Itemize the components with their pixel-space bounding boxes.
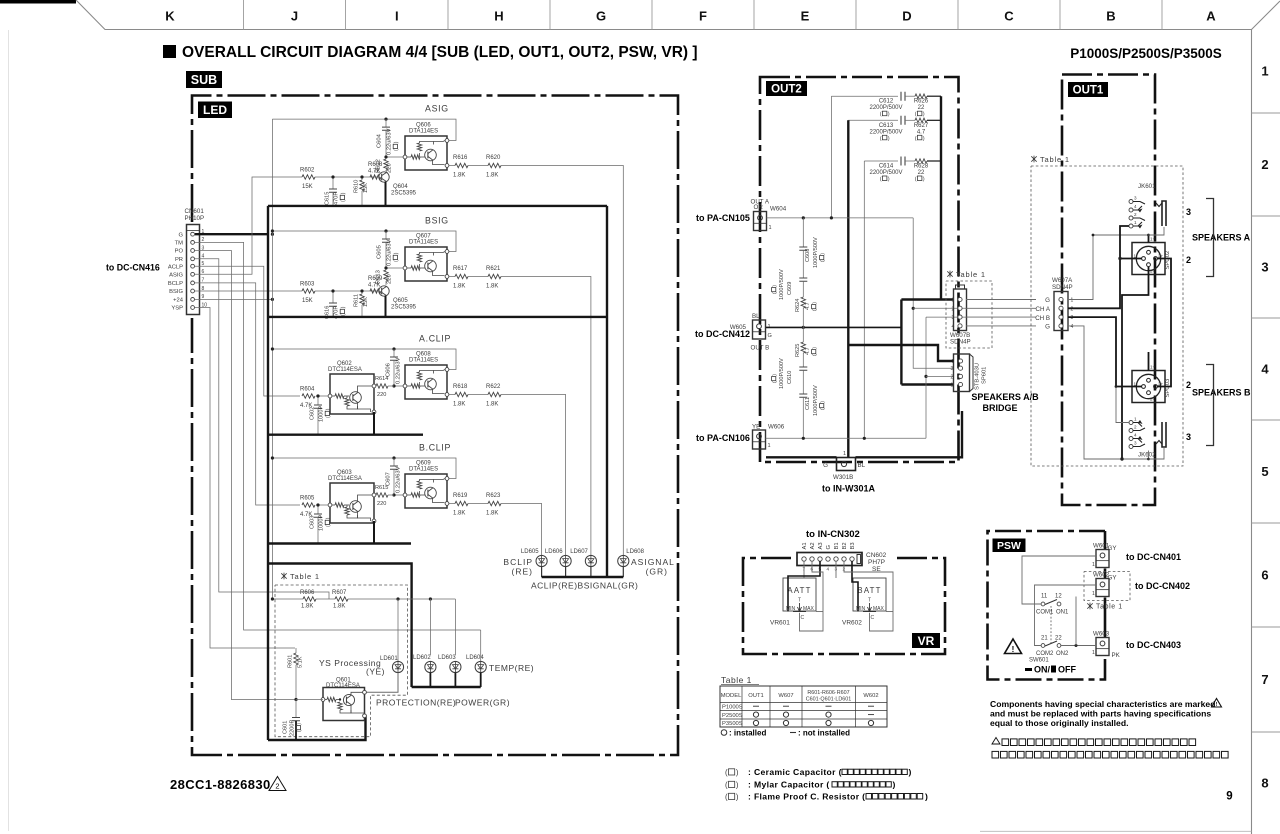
node SPEAKERS A labels <box>1186 199 1251 277</box>
svg-text:PH7P: PH7P <box>868 559 885 566</box>
resistor R611 15K (to bus) <box>361 291 363 294</box>
svg-text:470P: 470P <box>334 192 340 205</box>
wire: BSIG output with R617,R621 <box>449 276 455 278</box>
svg-text:3: 3 <box>951 366 954 372</box>
capacitor C606 0.22u/63V <box>393 349 395 357</box>
svg-text:4.7K: 4.7K <box>368 169 380 175</box>
svg-text:): ) <box>394 141 400 143</box>
svg-text:OUT1: OUT1 <box>748 693 763 699</box>
svg-text:CN601: CN601 <box>185 208 205 215</box>
page frame: top column band <box>0 0 1280 30</box>
svg-text:3: 3 <box>1261 260 1268 275</box>
svg-text:Q605: Q605 <box>393 298 408 304</box>
svg-text:C: C <box>871 615 875 621</box>
svg-text:15K: 15K <box>302 298 313 304</box>
wires: W607B to OUT1 W607A <box>966 299 1036 301</box>
svg-text:G: G <box>768 333 772 339</box>
svg-text:1+: 1+ <box>1150 365 1156 370</box>
svg-text:1.8K: 1.8K <box>453 511 465 517</box>
svg-text:R623: R623 <box>486 493 501 499</box>
wire: RC common (bold) to W607B pin1 <box>940 96 942 299</box>
svg-text:B.CLIP: B.CLIP <box>419 443 451 453</box>
wire: CN601 pin6 ASIG to ASIG input <box>195 177 302 274</box>
svg-text:3: 3 <box>1134 195 1137 200</box>
svg-text:(: ( <box>915 136 917 142</box>
svg-text:R611: R611 <box>354 294 360 307</box>
svg-text:3: 3 <box>952 315 955 321</box>
Zobel chain C608,C609,R624,R625,C610,C611 <box>772 218 826 438</box>
svg-text:2: 2 <box>1134 212 1137 217</box>
svg-text:W604: W604 <box>770 206 787 213</box>
title block <box>163 44 1222 61</box>
svg-text:CH A: CH A <box>1036 306 1051 313</box>
wire: G bold riser to W607B pin1 and SP601 pin1 <box>900 300 902 385</box>
node ON/OFF legend <box>1025 665 1076 675</box>
capacitor C612 2200P/500V + resistor R626 <box>831 92 941 118</box>
wire: ASIG DTA base wire <box>386 156 403 158</box>
svg-text:LD601: LD601 <box>380 656 398 662</box>
svg-text:to DC-CN403: to DC-CN403 <box>1126 640 1181 650</box>
svg-text:(: ( <box>880 177 882 183</box>
wire: OUT1 CH B net (bold) <box>1068 317 1142 386</box>
svg-text:3: 3 <box>1134 440 1137 445</box>
svg-text:ASIGNAL: ASIGNAL <box>631 557 675 567</box>
svg-text:F: F <box>699 9 707 24</box>
svg-text:22: 22 <box>1055 636 1062 642</box>
svg-text:SPEAKERS A: SPEAKERS A <box>1192 233 1251 243</box>
svg-text:R627: R627 <box>914 123 929 129</box>
PSW section border <box>988 531 1106 680</box>
svg-text:D: D <box>902 9 911 24</box>
wire: A.CLIP emitter bus (bold) <box>268 434 423 436</box>
svg-text:P1000S: P1000S <box>722 704 743 710</box>
svg-text:3: 3 <box>1071 315 1074 321</box>
wire: CN601 pin7 BCLP to B.CLIP input <box>195 283 300 505</box>
wire: ASIG +24 rail <box>272 119 456 140</box>
svg-text:2200P/500V: 2200P/500V <box>869 129 902 135</box>
wire: OUT A to W607B pin2 / SP601 pin3 <box>913 218 954 368</box>
wire: B.CLIP +24 rail <box>272 458 456 479</box>
svg-text:1+: 1+ <box>1150 237 1156 242</box>
wire: +24 rail bus vertical <box>271 119 273 600</box>
dashed box Table1 LED region <box>275 585 408 737</box>
svg-text:SDN4P: SDN4P <box>950 339 971 346</box>
svg-text:4.7: 4.7 <box>805 347 811 355</box>
LED LD602 <box>413 655 436 687</box>
svg-text:1000P/500V: 1000P/500V <box>779 269 785 300</box>
svg-text:BSIG: BSIG <box>425 216 449 226</box>
svg-text:OFF: OFF <box>1058 665 1076 675</box>
wire: A.CLIP input <box>316 395 328 397</box>
switch SW601 <box>1029 594 1069 664</box>
svg-text:C602: C602 <box>310 407 316 420</box>
note: special components (japanese) <box>992 738 1228 759</box>
svg-text:220: 220 <box>377 501 386 507</box>
resistor R613 220 <box>384 270 388 281</box>
svg-text:R619: R619 <box>453 493 468 499</box>
svg-text:1.8K: 1.8K <box>333 604 345 610</box>
svg-text:CH B: CH B <box>1035 315 1050 322</box>
svg-text:BATT: BATT <box>857 586 881 595</box>
svg-text:W607A: W607A <box>1052 277 1073 284</box>
wire: CN601 pin8 BSIG to BSIG input <box>195 290 302 292</box>
wire: W605 ground line (bold) <box>766 326 901 328</box>
svg-text:to DC-CN412: to DC-CN412 <box>695 329 750 339</box>
svg-text:R618: R618 <box>453 384 468 390</box>
svg-text:C609: C609 <box>787 282 793 295</box>
svg-text:to DC-CN401: to DC-CN401 <box>1126 552 1181 562</box>
SUB label <box>186 71 222 88</box>
wire: OUT1 G net A <box>1068 235 1149 300</box>
VR section border <box>743 558 945 654</box>
wire: LED cathode bus (bold) <box>542 576 624 578</box>
svg-text:SW601: SW601 <box>1029 658 1049 664</box>
svg-text:22: 22 <box>918 170 925 176</box>
svg-text:AATT: AATT <box>787 586 811 595</box>
svg-text:1.8K: 1.8K <box>486 511 498 517</box>
wire: OUT A line <box>767 217 914 219</box>
svg-text:15K: 15K <box>363 297 369 307</box>
svg-text:): ) <box>736 768 739 777</box>
svg-text:3: 3 <box>1186 207 1191 217</box>
svg-text:DTA114ES: DTA114ES <box>409 358 438 364</box>
svg-text:1: 1 <box>1092 562 1095 568</box>
wire: OUT B line <box>766 437 927 439</box>
svg-text:ASIG: ASIG <box>425 104 449 114</box>
svg-text:PROTECTION(RE): PROTECTION(RE) <box>376 698 456 708</box>
svg-text:2: 2 <box>1186 380 1191 390</box>
svg-text:SPEAKERS A/B: SPEAKERS A/B <box>971 392 1039 402</box>
wire: ground bus vertical (bold) <box>267 206 269 740</box>
svg-text:5.1K: 5.1K <box>298 656 304 668</box>
svg-text:G: G <box>823 462 828 469</box>
svg-text:LD608: LD608 <box>626 549 644 555</box>
svg-text:I: I <box>395 9 399 24</box>
svg-text:R625: R625 <box>795 344 801 357</box>
OUT1 section border <box>1062 75 1155 506</box>
svg-text:0.22u/63V: 0.22u/63V <box>387 128 393 155</box>
wire: A.CLIP +24 rail <box>272 349 456 370</box>
wire: CN601 pin3 PO drop <box>195 251 296 700</box>
svg-text:LD607: LD607 <box>570 549 588 555</box>
wire: CN601 pin1 G to ground bus (bold) <box>195 233 268 235</box>
svg-text:15K: 15K <box>363 183 369 193</box>
svg-text:R604: R604 <box>300 387 315 393</box>
svg-text:2: 2 <box>275 782 279 791</box>
svg-text:): ) <box>893 780 896 790</box>
svg-text:A2: A2 <box>810 542 816 549</box>
resistor R609 4.7K <box>370 289 381 293</box>
svg-text:): ) <box>394 252 400 254</box>
svg-text:W301B: W301B <box>833 474 853 481</box>
wire: BSIG input <box>315 290 379 292</box>
wire: B.CLIP output <box>449 503 455 505</box>
resistor R614 220 <box>374 385 376 387</box>
svg-text:A: A <box>1206 9 1216 24</box>
svg-text:ACLP: ACLP <box>168 264 183 270</box>
svg-text:PO: PO <box>175 249 184 255</box>
PSW label <box>993 539 1026 553</box>
svg-text:8: 8 <box>1261 776 1268 791</box>
resistor R604 4.7K <box>302 394 315 398</box>
wire: OUT B to W607B pin3 / SP601 pin2 <box>925 317 927 438</box>
wires VR601 <box>803 561 805 578</box>
svg-text:Table 1: Table 1 <box>721 675 752 685</box>
resistor R606 1.8K <box>271 590 335 610</box>
wire: BSIG DTA base wire <box>386 267 403 269</box>
jack JK601 <box>1129 183 1166 229</box>
wire: BSIG +24 rail <box>272 231 456 252</box>
svg-text:1000P/500V: 1000P/500V <box>813 237 819 268</box>
connector W607A SDN4P <box>1052 277 1074 331</box>
svg-text:C614: C614 <box>879 164 894 170</box>
OUT2 label <box>766 81 807 96</box>
svg-text:LD603: LD603 <box>438 655 456 661</box>
svg-text:P1000S/P2500S/P3500S: P1000S/P2500S/P3500S <box>1070 46 1222 61</box>
svg-text:1.8K: 1.8K <box>301 604 313 610</box>
svg-text:(: ( <box>820 408 826 410</box>
wire: bold vertical to LED bus <box>606 206 608 577</box>
svg-text:to IN-CN302: to IN-CN302 <box>806 529 860 540</box>
svg-text:1: 1 <box>1261 64 1268 79</box>
svg-text:4.7: 4.7 <box>917 129 926 135</box>
dashed box Table1 PSW region <box>1084 572 1130 601</box>
SUB section border <box>192 96 678 756</box>
wires VR602 <box>835 561 837 578</box>
svg-text:!: ! <box>1012 645 1015 654</box>
svg-text:): ) <box>341 192 347 194</box>
svg-text:R628: R628 <box>914 164 929 170</box>
svg-text:(: ( <box>915 177 917 183</box>
svg-text:R609: R609 <box>368 276 383 282</box>
connector W604 (OUT A) <box>751 199 787 232</box>
svg-text:DTC114ESA: DTC114ESA <box>328 476 362 482</box>
speakon connector SPG02 <box>1132 237 1171 275</box>
svg-text:): ) <box>820 401 826 403</box>
svg-text:(: ( <box>326 416 332 418</box>
svg-text:G: G <box>178 232 183 238</box>
svg-text:5: 5 <box>1261 464 1268 479</box>
dashed box Table1 OUT1 region <box>1031 156 1036 163</box>
svg-text:): ) <box>820 253 826 255</box>
svg-text:(YE): (YE) <box>366 667 385 677</box>
svg-text:2200P: 2200P <box>290 720 296 736</box>
svg-text:G: G <box>826 545 832 550</box>
svg-text:R614: R614 <box>375 376 388 382</box>
svg-text:+24: +24 <box>173 298 184 304</box>
svg-text:(: ( <box>820 260 826 262</box>
svg-text:): ) <box>888 177 890 183</box>
svg-text:BCLIP: BCLIP <box>503 557 533 567</box>
wire: A.CLIP output <box>449 394 455 396</box>
svg-text:W606: W606 <box>768 424 785 431</box>
capacitor C603 1000P <box>317 505 319 514</box>
svg-text:(: ( <box>394 260 400 262</box>
svg-text:R615: R615 <box>375 485 388 491</box>
wire: speakon 2+ bridge loop (bold) <box>1158 259 1172 387</box>
svg-text:DTA114ES: DTA114ES <box>409 467 438 473</box>
svg-text:C604: C604 <box>377 133 383 148</box>
svg-text:Q604: Q604 <box>393 184 408 190</box>
wire: OUT1 G net B <box>1068 326 1149 459</box>
LED LD605 <box>521 549 547 577</box>
node: drawing number 28CC1-8826830 <box>170 777 286 793</box>
svg-text:1: 1 <box>1092 650 1095 656</box>
svg-text:4: 4 <box>1261 362 1269 377</box>
svg-text:1: 1 <box>1092 591 1095 597</box>
svg-text:PSW: PSW <box>997 540 1021 552</box>
svg-text:(: ( <box>394 149 400 151</box>
svg-text:1.8K: 1.8K <box>453 402 465 408</box>
OUT1 label <box>1068 82 1108 97</box>
svg-text:: installed: : installed <box>729 729 766 738</box>
svg-text:Table 1: Table 1 <box>290 572 320 581</box>
wire: JK601 hot branch (bold) <box>1120 226 1129 259</box>
svg-text:11: 11 <box>1041 594 1048 600</box>
LED LD608 <box>618 549 645 577</box>
wire: ground bus branch to LED group (bold) <box>268 564 412 688</box>
svg-text:2: 2 <box>1071 306 1074 312</box>
capacitor C604 0.22u/63V <box>385 119 387 127</box>
svg-text:to DC-CN416: to DC-CN416 <box>106 263 160 273</box>
svg-text:J: J <box>291 9 298 24</box>
resistor R603 15K <box>302 289 315 293</box>
svg-text:): ) <box>812 302 818 304</box>
svg-text:DTA114ES: DTA114ES <box>409 129 438 135</box>
wire: CN601 pin9 +24 to rail bus <box>195 298 272 300</box>
svg-text:YSP: YSP <box>171 306 183 312</box>
svg-text:ON2: ON2 <box>1056 651 1069 657</box>
svg-text:): ) <box>326 517 332 519</box>
svg-text:W607: W607 <box>778 693 793 699</box>
svg-text:R607: R607 <box>332 590 347 596</box>
connector W605 <box>730 313 772 352</box>
wire: OUT1 G A to jack sleeve <box>1149 227 1165 235</box>
svg-text:15K: 15K <box>302 184 313 190</box>
svg-text:LD606: LD606 <box>545 549 563 555</box>
svg-text:R616: R616 <box>453 155 468 161</box>
note: special components (english) <box>990 699 1222 729</box>
wire: CN601 pin5 ACLP to A.CLIP input <box>195 266 300 396</box>
svg-text:C601: C601 <box>283 721 289 734</box>
svg-text:1: 1 <box>1071 298 1074 304</box>
svg-text:(: ( <box>915 112 917 118</box>
svg-text:): ) <box>341 306 347 308</box>
wire: C612 branch to OUT A <box>830 96 832 218</box>
wire: ASIG output with R616,R620 <box>449 165 455 167</box>
svg-text:4: 4 <box>1071 324 1074 330</box>
wire: bold branch to SP601 pin4 <box>848 345 953 361</box>
svg-text:4: 4 <box>952 324 955 330</box>
svg-text:VR602: VR602 <box>842 620 862 627</box>
wire: B.CLIP DTA base wire <box>394 494 403 496</box>
VR label <box>912 633 940 648</box>
speakon connector SPG03 <box>1132 365 1171 403</box>
svg-text:2: 2 <box>1186 255 1191 265</box>
connector W603 <box>1092 631 1121 660</box>
svg-text:equal to those originally inst: equal to those originally installed. <box>990 718 1128 728</box>
svg-text:C605: C605 <box>377 245 383 259</box>
svg-text:1: 1 <box>843 451 846 457</box>
svg-text:1.8K: 1.8K <box>453 284 465 290</box>
svg-text:COM2: COM2 <box>1036 651 1054 657</box>
transistor Q605 2SC5395 <box>379 286 389 296</box>
svg-text:C607: C607 <box>386 472 392 486</box>
resistor R607 1.8K <box>332 590 455 655</box>
svg-text:2200P/500V: 2200P/500V <box>869 170 902 176</box>
svg-text:Table 1: Table 1 <box>1096 604 1123 611</box>
svg-text:): ) <box>326 408 332 410</box>
LED LD606 <box>545 549 571 577</box>
svg-text:): ) <box>297 723 303 725</box>
page frame: right row band <box>980 30 1280 834</box>
svg-text:7: 7 <box>1261 672 1268 687</box>
wire: OUT1 CH A net (bold) <box>1068 259 1142 309</box>
svg-text:P2500S: P2500S <box>722 713 743 719</box>
svg-text:PH10P: PH10P <box>185 215 205 222</box>
LED LD601 <box>366 599 404 692</box>
svg-text:A3: A3 <box>818 542 824 549</box>
svg-text:SP601: SP601 <box>982 367 988 384</box>
svg-text:: not installed: : not installed <box>798 729 850 738</box>
svg-text:(: ( <box>812 309 818 311</box>
svg-text:1000P/500V: 1000P/500V <box>779 358 785 389</box>
svg-text:POWER(GR): POWER(GR) <box>455 698 510 708</box>
svg-text:(: ( <box>297 730 303 732</box>
svg-text:JK602: JK602 <box>1138 452 1156 459</box>
svg-text:P3500S: P3500S <box>722 721 743 727</box>
svg-text:SUB: SUB <box>191 73 217 87</box>
svg-text:28CC1-8826830: 28CC1-8826830 <box>170 777 271 792</box>
capacitor C602 1000P <box>317 396 319 405</box>
svg-text:1: 1 <box>769 225 772 231</box>
svg-text:(GR): (GR) <box>646 567 668 577</box>
svg-text:OR: OR <box>754 204 764 211</box>
svg-text:R624: R624 <box>795 299 801 312</box>
svg-text:R626: R626 <box>914 99 929 105</box>
connector W301B <box>823 451 865 481</box>
svg-text:R602: R602 <box>300 168 315 174</box>
svg-text:W603: W603 <box>1093 631 1110 638</box>
svg-text:Table 1: Table 1 <box>1040 155 1070 164</box>
svg-text:(: ( <box>880 136 882 142</box>
resistor R602 15K <box>302 175 315 179</box>
svg-text:R606: R606 <box>300 590 315 596</box>
svg-text:: Ceramic Capacitor (: : Ceramic Capacitor ( <box>748 767 842 777</box>
svg-text:K: K <box>165 9 175 24</box>
svg-text:: Flame Proof C. Resistor (: : Flame Proof C. Resistor ( <box>748 792 865 802</box>
svg-text:): ) <box>888 136 890 142</box>
connector SP601 STB-403U <box>951 354 988 392</box>
wire: SPG03 1+ stub (bold) <box>1148 352 1150 371</box>
wire: B.CLIP emitter bus (bold) <box>268 542 411 544</box>
svg-text:W602: W602 <box>863 693 878 699</box>
svg-text:6: 6 <box>1261 568 1268 583</box>
svg-text:(: ( <box>880 112 882 118</box>
note: capacitor/resistor legend <box>725 767 928 802</box>
wire: ASIG input <box>315 176 379 178</box>
wire: CN601 pin10 YSP drop to YS circuit <box>195 308 295 649</box>
svg-text:ON/: ON/ <box>1034 665 1051 675</box>
wire: G B to jack sleeve <box>1149 448 1165 459</box>
svg-text:G: G <box>1045 297 1050 304</box>
capacitor C616 470P <box>332 291 334 303</box>
svg-text:R621: R621 <box>486 266 501 272</box>
svg-text:2: 2 <box>1134 424 1137 429</box>
svg-text:T: T <box>798 598 801 604</box>
svg-text:BL: BL <box>752 313 760 320</box>
connector W606 <box>752 424 785 450</box>
